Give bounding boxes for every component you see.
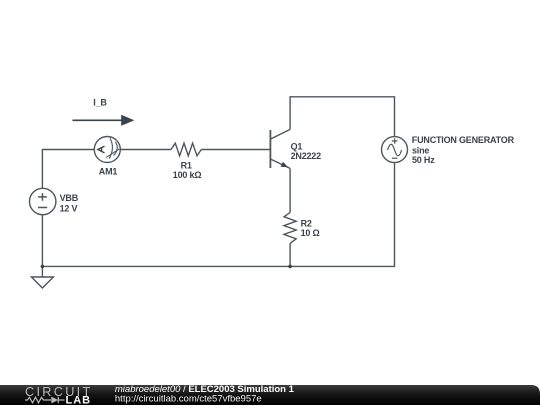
ammeter AM1 [94,137,120,163]
svg-text:2N2222: 2N2222 [291,151,322,161]
wire function generator bottom and bottom rail [42,163,394,267]
wire VBB bottom to ground node [41,215,43,267]
svg-text:12 V: 12 V [60,203,78,213]
svg-text:VBB: VBB [60,193,79,203]
current arrow I_B [73,115,135,126]
wire R1 to Q1 base [201,149,270,151]
ammeter letter A [98,146,105,153]
svg-text:100 kΩ: 100 kΩ [173,170,202,180]
wire left-top horizontal (VBB to AM1) [42,150,94,189]
ground [31,277,53,288]
voltage source VBB [30,188,56,214]
svg-text:http://circuitlab.com/cte57vfb: http://circuitlab.com/cte57vfbe957e [115,393,262,404]
svg-text:I_B: I_B [93,98,107,108]
node junction at R2 bottom [288,265,292,269]
node junction at ground [41,265,45,269]
svg-text:FUNCTION GENERATOR: FUNCTION GENERATOR [412,135,515,145]
wire emitter to R2 [289,168,291,212]
svg-text:50 Hz: 50 Hz [412,155,435,165]
transistor Q1 [270,129,290,168]
wire R2 to bottom rail [289,243,291,266]
svg-text:R1: R1 [181,161,192,171]
svg-text:AM1: AM1 [99,166,118,176]
svg-text:Q1: Q1 [291,141,303,151]
function generator V1 [382,137,408,163]
wire ground stub [41,266,43,277]
resistor R2 [284,212,296,243]
svg-text:R2: R2 [301,218,312,228]
svg-text:10 Ω: 10 Ω [301,228,320,238]
wire AM1 to R1 [120,149,171,151]
wire collector to top rail [290,97,394,137]
logo resistor-diode doodle [25,397,65,403]
svg-text:sine: sine [412,145,429,155]
svg-text:LAB: LAB [66,394,92,405]
resistor R1 [171,143,201,156]
emitter arrow of Q1 [281,162,289,168]
